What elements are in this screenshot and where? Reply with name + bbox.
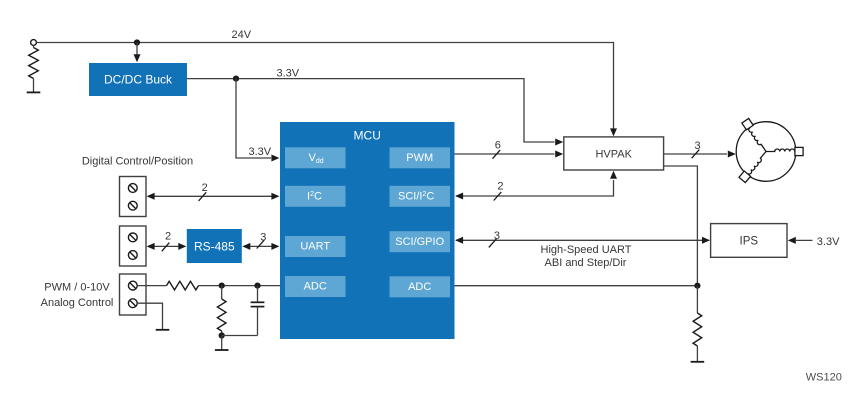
bus slash (3-wire SCI/GPIO): [489, 239, 497, 248]
ground (J3 pin2): [156, 329, 170, 331]
arrow into IPS (3.3V): [788, 237, 796, 244]
wire 24V drop to DC/DC Buck: [136, 43, 138, 56]
svg-text:2: 2: [165, 231, 171, 243]
MCU U2: [280, 122, 455, 339]
wire node C to ground: [221, 336, 223, 350]
svg-text:Digital Control/Position: Digital Control/Position: [82, 156, 193, 168]
wire HVPAK sense to node D: [664, 166, 698, 286]
DC/DC Buck converter U1: [89, 63, 187, 96]
MCU pin block UART: [285, 236, 346, 257]
svg-text:High-Speed UART: High-Speed UART: [541, 244, 632, 256]
svg-text:PWM: PWM: [406, 152, 433, 164]
svg-text:3.3V: 3.3V: [277, 68, 300, 80]
svg-text:I2C: I2C: [307, 190, 322, 202]
arrow into motor: [728, 151, 736, 158]
svg-text:RS-485: RS-485: [194, 239, 235, 253]
connector J3: [120, 274, 147, 315]
junction (24V to DC/DC Buck): [134, 39, 140, 45]
connector J2: [120, 226, 147, 266]
wire HVPAK to motor (3-phase): [664, 153, 727, 155]
wire J3 pin1 to R2: [137, 285, 167, 287]
svg-text:UART: UART: [300, 241, 330, 253]
arrow into MCU I2C: [271, 193, 279, 200]
bus slash (3-wire UART): [257, 240, 265, 249]
MCU pin block ADC (left): [285, 276, 346, 297]
svg-text:6: 6: [495, 140, 501, 152]
svg-text:Analog Control: Analog Control: [41, 297, 114, 309]
wire 24V rail: [36, 43, 613, 130]
wire 3.3V to IPS: [796, 239, 813, 241]
resistor R2 (series): [167, 281, 199, 290]
svg-text:ADC: ADC: [408, 281, 431, 293]
ground (below R4): [691, 361, 705, 363]
arrow at J2 side: [147, 243, 155, 250]
arrow into HVPAK bottom: [610, 171, 617, 179]
terminal T1 (24V input): [31, 40, 37, 46]
wire SCI/GPIO to IPS (3-wire): [456, 239, 709, 241]
svg-text:24V: 24V: [232, 29, 252, 41]
motor M1 (3-phase): [736, 122, 796, 182]
wire node A down: [221, 286, 223, 299]
resistor R1: [33, 45, 35, 47]
MCU pin block ADC (right): [390, 276, 451, 297]
svg-text:PWM / 0-10V: PWM / 0-10V: [44, 281, 110, 293]
svg-text:ADC: ADC: [304, 281, 327, 293]
svg-text:3: 3: [695, 140, 701, 152]
resistor R3 (to ground): [217, 299, 226, 331]
arrow at RS-485 side: [242, 243, 250, 250]
junction node B: [254, 283, 260, 289]
svg-text:3: 3: [494, 230, 500, 242]
wire R3 to node C: [221, 331, 223, 336]
arrow into RS-485: [178, 243, 186, 250]
HVPAK U4: [564, 137, 664, 170]
arrow into MCU UART: [271, 243, 279, 250]
arrow into HVPAK top (24V): [610, 128, 617, 136]
wire MCU ADC to node D: [455, 285, 698, 287]
svg-text:WS120: WS120: [806, 372, 842, 384]
svg-text:SCI/I2C: SCI/I2C: [398, 190, 434, 202]
bus slash (2-wire SCI/I2C): [494, 192, 502, 201]
junction node D: [694, 283, 700, 289]
wire node C to C1 bottom: [222, 335, 258, 337]
svg-text:3: 3: [260, 231, 266, 243]
arrow into MCU SCI/GPIO: [455, 237, 463, 244]
ground (below R1): [27, 91, 41, 93]
capacitor C1: [257, 286, 259, 302]
wire PWM to HVPAK (6-wire): [455, 153, 555, 155]
bus slash (3-phase): [692, 150, 700, 159]
MCU pin block Vdd: [285, 147, 346, 168]
MCU pin block SCI/GPIO: [390, 231, 451, 252]
svg-text:IPS: IPS: [740, 236, 759, 248]
bus slash (6-wire PWM): [493, 150, 501, 159]
svg-text:2: 2: [202, 182, 208, 194]
wire R4 to ground: [696, 346, 698, 361]
junction node C: [219, 332, 225, 338]
arrow into HVPAK (PWM): [555, 151, 563, 158]
svg-text:2: 2: [497, 181, 503, 193]
svg-text:DC/DC Buck: DC/DC Buck: [104, 73, 173, 87]
RS-485 transceiver U3: [187, 229, 242, 263]
bus slash (2-wire J1): [199, 192, 207, 201]
MCU pin block I2C: [285, 186, 346, 207]
arrow into IPS: [702, 237, 710, 244]
wire RS-485 to MCU UART (3-wire): [244, 245, 279, 247]
IPS U5: [711, 224, 787, 258]
arrow at J1 side: [147, 193, 155, 200]
wire J3 pin2 to ground: [137, 303, 163, 329]
svg-text:ABI and Step/Dir: ABI and Step/Dir: [545, 257, 627, 269]
svg-text:3.3V: 3.3V: [249, 146, 272, 158]
wire node D to R4: [696, 286, 698, 313]
resistor R4 (sense): [693, 313, 702, 346]
svg-text:HVPAK: HVPAK: [595, 148, 632, 160]
wire 3.3V rail: [187, 79, 555, 142]
arrow into DC/DC Buck: [134, 54, 141, 62]
wire J1 to MCU I2C (2-wire): [148, 195, 278, 197]
MCU pin block PWM: [390, 147, 451, 168]
svg-text:SCI/GPIO: SCI/GPIO: [395, 236, 444, 248]
connector J1: [120, 177, 147, 217]
arrow into HVPAK (3.3V): [555, 139, 563, 146]
wire SCI/I2C to HVPAK (2-wire): [456, 180, 614, 196]
wire R2 to MCU ADC: [199, 285, 281, 287]
arrow into MCU Vdd: [271, 155, 279, 162]
bus slash (2-wire J2): [162, 243, 170, 252]
junction node A: [219, 283, 225, 289]
junction (3.3V to Vdd): [233, 76, 239, 82]
MCU pin block SCI/I2C: [390, 186, 451, 207]
wire J2 to RS-485 (2-wire): [148, 245, 185, 247]
wire 3.3V to MCU Vdd: [236, 79, 271, 158]
svg-text:MCU: MCU: [354, 129, 381, 143]
svg-text:3.3V: 3.3V: [817, 236, 840, 248]
ground (below R3): [215, 349, 229, 351]
arrow into MCU SCI/I2C: [455, 193, 463, 200]
